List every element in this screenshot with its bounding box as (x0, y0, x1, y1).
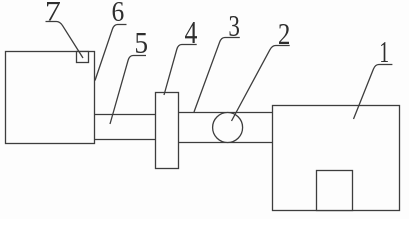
bearing block 4 (vertical rectangle) (156, 93, 179, 169)
label 6 (113, 2, 124, 21)
wire: shaft left segment top (95, 114, 156, 116)
label 4 (185, 22, 197, 43)
label 1 (381, 42, 388, 62)
leader line 2 (232, 46, 290, 122)
small square 7 (sensor on left box top) (77, 52, 89, 63)
leader line 3 (194, 38, 240, 113)
roller circle 2 (213, 113, 243, 143)
left box (6, 52, 95, 144)
label 5 (136, 33, 147, 53)
wire: shaft right segment bottom (179, 142, 273, 144)
small square inside right box (317, 171, 353, 211)
label 7 (47, 2, 60, 21)
right box 1 (273, 106, 400, 211)
wire: shaft left segment bottom (95, 139, 156, 141)
label 3 (230, 16, 239, 36)
leader line 1 (354, 65, 393, 120)
wire: shaft right segment top (179, 112, 273, 114)
leader line 7 (46, 22, 84, 59)
leader line 6 (95, 25, 127, 81)
leader line 4 (164, 45, 197, 96)
leader line 5 (110, 56, 146, 125)
label 2 (279, 24, 289, 44)
